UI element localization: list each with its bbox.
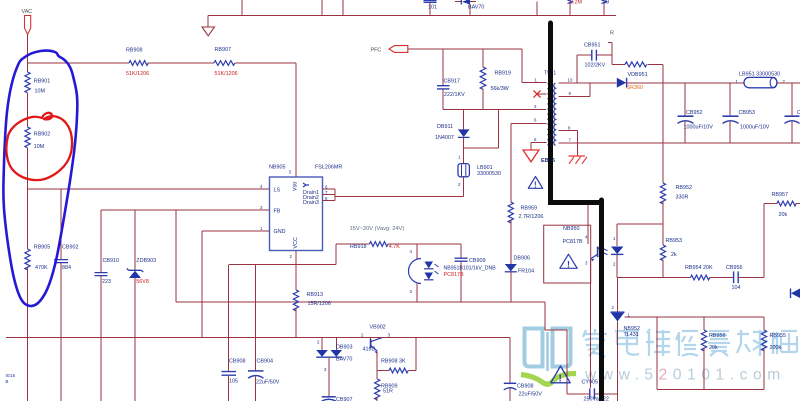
svg-text:105: 105 bbox=[229, 378, 238, 384]
svg-text:1000uF/10V: 1000uF/10V bbox=[740, 125, 770, 131]
optocoupler NB951 (LED side) bbox=[416, 244, 418, 259]
svg-text:VCC: VCC bbox=[293, 237, 299, 248]
wire bbox=[148, 62, 214, 64]
svg-text:CB909: CB909 bbox=[469, 258, 485, 264]
wire stub x343 bbox=[342, 0, 344, 16]
svg-text:250Vac 22: 250Vac 22 bbox=[584, 397, 609, 401]
svg-text:CB908: CB908 bbox=[229, 358, 245, 364]
svg-text:20k: 20k bbox=[779, 212, 788, 218]
wire pin3 line bbox=[443, 108, 546, 110]
svg-text:CB902: CB902 bbox=[62, 244, 78, 250]
capacitor CB910 223 bbox=[100, 210, 102, 272]
capacitor CB904 22uF/50V bbox=[255, 265, 257, 371]
svg-text:RB902: RB902 bbox=[34, 132, 50, 138]
black marker line bbox=[551, 23, 602, 401]
svg-text:39: 39 bbox=[603, 0, 609, 6]
wire bbox=[27, 93, 29, 127]
svg-text:VB902: VB902 bbox=[370, 325, 386, 331]
svg-text:CB910: CB910 bbox=[103, 258, 119, 264]
pin2 stub with X bbox=[536, 93, 547, 95]
svg-text:RB901: RB901 bbox=[34, 78, 50, 84]
wire RB908 line bbox=[28, 62, 130, 64]
ground (top left) bbox=[207, 16, 209, 28]
wire bottom main bus bbox=[6, 337, 510, 339]
svg-text:!: ! bbox=[534, 181, 537, 190]
svg-text:CB917: CB917 bbox=[444, 78, 460, 84]
wire FB line bbox=[101, 209, 270, 211]
wire FB branch down bbox=[175, 210, 177, 302]
svg-text:RB918: RB918 bbox=[350, 244, 366, 250]
svg-text:ZDB903: ZDB903 bbox=[136, 258, 156, 264]
resistor stub 2.2M (partial, top) bbox=[569, 3, 571, 16]
svg-text:20k: 20k bbox=[709, 345, 718, 351]
resistor RB951 bbox=[612, 63, 625, 65]
resistor RB907 51K/1206 bbox=[214, 61, 235, 66]
resistor RB959 2.7R/1206 bbox=[510, 124, 512, 203]
svg-text:RB908: RB908 bbox=[126, 47, 142, 53]
diode DB906 FR104 bbox=[505, 264, 517, 271]
svg-text:FSL206MR: FSL206MR bbox=[315, 164, 342, 170]
svg-text:!: ! bbox=[567, 259, 570, 269]
svg-text:BAV70: BAV70 bbox=[336, 356, 352, 362]
diode DB911 1N4007 bbox=[463, 109, 465, 129]
svg-text:NB952: NB952 bbox=[624, 326, 640, 332]
wire pin7 / ground bus bbox=[559, 142, 800, 144]
svg-text:104: 104 bbox=[732, 285, 741, 291]
svg-text:www.520101.com: www.520101.com bbox=[584, 367, 786, 384]
capacitor CB917 222/1KV bbox=[442, 49, 444, 85]
wire drain pins bbox=[323, 189, 336, 201]
svg-text:CB951: CB951 bbox=[584, 43, 600, 49]
svg-text:VAC: VAC bbox=[22, 9, 33, 15]
wire to IC Vstr bbox=[235, 63, 296, 177]
svg-text:223: 223 bbox=[102, 279, 111, 285]
wire PFC line bbox=[408, 49, 522, 83]
resistor stub 39x (partial, top) bbox=[603, 3, 605, 16]
top bus wire bbox=[208, 15, 616, 17]
svg-text:15R/1206: 15R/1206 bbox=[308, 301, 331, 307]
svg-text:CY905: CY905 bbox=[582, 380, 598, 386]
primary winding bbox=[548, 84, 550, 145]
capacitor (partial, right edge) bbox=[791, 83, 793, 116]
watermark chinese characters bbox=[583, 329, 797, 357]
wire LS line bbox=[28, 188, 270, 190]
svg-text:B: B bbox=[6, 379, 9, 384]
svg-text:RB952: RB952 bbox=[676, 185, 692, 191]
svg-text:NB905: NB905 bbox=[269, 164, 285, 170]
wire y302 bus bbox=[176, 301, 545, 303]
svg-text:2.2M: 2.2M bbox=[570, 0, 582, 5]
svg-text:1N4007: 1N4007 bbox=[435, 135, 454, 141]
phototransistor NB950 bbox=[587, 205, 589, 244]
svg-text:RB959: RB959 bbox=[521, 205, 537, 211]
wire y302 corner down bbox=[545, 302, 589, 394]
svg-text:222/1KV: 222/1KV bbox=[444, 92, 465, 98]
resistor RB955 200k bbox=[763, 317, 765, 330]
resistor RB957 20k bbox=[764, 203, 777, 205]
svg-text:LB951 33000530: LB951 33000530 bbox=[739, 71, 780, 77]
wire pin10 bbox=[559, 82, 617, 84]
wire pin9 riser bbox=[559, 83, 591, 97]
svg-text:15V~20V (Vavg: 24V): 15V~20V (Vavg: 24V) bbox=[350, 226, 405, 232]
svg-text:2k: 2k bbox=[671, 252, 677, 258]
wire RB918 line bbox=[336, 243, 370, 245]
wire stub x322 bbox=[321, 0, 323, 16]
wire left branch bbox=[657, 317, 764, 390]
capacitor CB951 102/2KV bbox=[577, 55, 591, 83]
wire y264 link bbox=[229, 244, 336, 265]
wire feedback rail bbox=[617, 277, 691, 279]
svg-text:102/2KV: 102/2KV bbox=[585, 62, 606, 68]
svg-text:!: ! bbox=[559, 374, 562, 385]
svg-text:NB951B101/1kV_DNB: NB951B101/1kV_DNB bbox=[444, 266, 497, 272]
svg-text:BAV70: BAV70 bbox=[468, 5, 484, 11]
svg-text:IG16: IG16 bbox=[6, 373, 16, 378]
svg-text:CB908: CB908 bbox=[517, 383, 533, 389]
capacitor CB907 (partial bottom) bbox=[322, 396, 336, 398]
capacitor CB908 22uF/50V bbox=[509, 338, 511, 383]
diode (partial, right edge) bbox=[791, 289, 800, 299]
svg-text:RB953: RB953 bbox=[666, 238, 682, 244]
wire pin5 bbox=[531, 143, 547, 151]
op-amp U1 : IC NB905 FSL206MR box bbox=[270, 177, 323, 251]
svg-text:FR104: FR104 bbox=[518, 268, 534, 274]
wire 12V rail bbox=[627, 82, 744, 84]
svg-text:PC817B: PC817B bbox=[444, 272, 464, 278]
svg-text:SR360: SR360 bbox=[627, 85, 643, 91]
shunt NB952 TL431 bbox=[616, 278, 618, 313]
svg-text:RB955: RB955 bbox=[770, 333, 786, 339]
capacitor CB902 884 bbox=[60, 189, 62, 259]
svg-text:51K/1206: 51K/1206 bbox=[215, 71, 238, 77]
wire VCC down bbox=[295, 251, 297, 291]
resistor RB918 4.7K bbox=[370, 242, 388, 247]
capacitor CY905 bbox=[590, 388, 595, 399]
watermark book icon bbox=[525, 329, 571, 372]
warning triangle (opto) bbox=[560, 254, 577, 268]
svg-text:PFC: PFC bbox=[371, 48, 382, 54]
svg-text:RB907: RB907 bbox=[215, 47, 231, 53]
svg-text:33000530: 33000530 bbox=[477, 171, 501, 177]
svg-text:RB956: RB956 bbox=[709, 333, 725, 339]
resistor RB952 330R bbox=[660, 183, 665, 204]
svg-text:CB953: CB953 bbox=[739, 110, 755, 116]
secondary winding bbox=[554, 83, 556, 145]
resistor RB953 2k bbox=[662, 224, 664, 245]
svg-text:56V8: 56V8 bbox=[136, 279, 149, 285]
resistor RB902 10M bbox=[25, 127, 30, 148]
svg-text:RB957: RB957 bbox=[772, 192, 788, 198]
freehand red circle bbox=[6, 113, 72, 180]
resistor RB901 10M bbox=[25, 72, 30, 93]
svg-text:TL431: TL431 bbox=[624, 332, 639, 338]
capacitor 101 (partial, top) bbox=[429, 3, 431, 16]
svg-text:884: 884 bbox=[62, 265, 71, 271]
svg-text:RB908 3K: RB908 3K bbox=[381, 359, 406, 365]
wire VAC down bbox=[27, 35, 29, 73]
wire to LED bbox=[617, 224, 663, 246]
svg-text:22uF/50V: 22uF/50V bbox=[256, 379, 280, 385]
svg-text:RB919: RB919 bbox=[495, 70, 511, 76]
wire stub x537 bbox=[536, 2, 538, 16]
svg-text:NB950: NB950 bbox=[563, 226, 579, 232]
svg-text:101: 101 bbox=[428, 5, 437, 11]
svg-text:2.7R/1206: 2.7R/1206 bbox=[519, 214, 544, 220]
resistor RB908 3K bbox=[377, 370, 389, 372]
resistor RB919 56k/3W bbox=[482, 49, 484, 67]
wire pin6 bbox=[511, 123, 547, 125]
capacitor CB953 1000uF/10V bbox=[729, 83, 731, 116]
wire pin8 bbox=[559, 131, 578, 157]
resistor RB908 51K/1206 bbox=[129, 61, 148, 66]
resistor RB954 20K bbox=[691, 275, 710, 280]
svg-text:GND: GND bbox=[274, 229, 286, 235]
capacitor CB908 (105) bbox=[228, 265, 230, 372]
svg-text:RB913: RB913 bbox=[307, 292, 323, 298]
svg-text:FB: FB bbox=[274, 208, 281, 214]
svg-text:PC817B: PC817B bbox=[563, 239, 583, 245]
resistor RB905 470K bbox=[27, 189, 29, 249]
svg-text:4.7K: 4.7K bbox=[389, 244, 400, 250]
svg-text:56k/3W: 56k/3W bbox=[491, 86, 510, 92]
capacitor CB909 bbox=[460, 244, 462, 258]
svg-text:R: R bbox=[610, 31, 614, 37]
capacitor CB952 1000uF/10V bbox=[684, 83, 686, 116]
svg-text:DB903: DB903 bbox=[336, 344, 352, 350]
optocoupler NB950 PC817B box bbox=[544, 225, 591, 283]
resistor RB956 20k bbox=[703, 317, 705, 330]
svg-text:LS: LS bbox=[274, 187, 281, 193]
svg-text:10M: 10M bbox=[35, 88, 46, 94]
svg-text:51K/1206: 51K/1206 bbox=[126, 71, 149, 77]
diode VDB951 SR360 bbox=[617, 78, 626, 88]
svg-text:CB956: CB956 bbox=[726, 265, 742, 271]
wire stub x242 bbox=[241, 0, 243, 16]
svg-text:CB907: CB907 bbox=[336, 397, 352, 401]
watermark green swoosh bbox=[521, 374, 576, 385]
svg-text:10M: 10M bbox=[34, 144, 45, 150]
zener ZDB903 bbox=[134, 210, 136, 270]
wire pin1 bbox=[522, 82, 547, 84]
wire drain line bbox=[335, 196, 464, 198]
capacitor CB956 104 bbox=[734, 271, 739, 283]
svg-text:DB906: DB906 bbox=[514, 256, 530, 262]
svg-text:51R: 51R bbox=[383, 389, 393, 395]
resistor RB913 15R/1206 bbox=[293, 290, 298, 311]
svg-text:CB904: CB904 bbox=[257, 358, 273, 364]
warning triangle (bottom) bbox=[551, 366, 570, 383]
svg-text:RB905: RB905 bbox=[34, 244, 50, 250]
wire TL431 ref line bbox=[625, 316, 765, 318]
svg-text:470K: 470K bbox=[35, 265, 48, 271]
wire bbox=[27, 148, 29, 189]
resistor RB909 51R bbox=[375, 379, 380, 400]
ground EB16 (triangle) bbox=[523, 150, 539, 162]
svg-text:1000uF/10V: 1000uF/10V bbox=[684, 125, 714, 131]
svg-text:DB911: DB911 bbox=[437, 124, 453, 130]
wire GND line bbox=[202, 230, 270, 232]
svg-text:10: 10 bbox=[568, 78, 573, 83]
diode DB903 BAV70 (dual) bbox=[322, 338, 336, 351]
warning triangle (transformer) bbox=[528, 177, 542, 189]
svg-text:VDB951: VDB951 bbox=[628, 72, 648, 78]
svg-text:200k: 200k bbox=[770, 345, 782, 351]
earth ground (hatched) bbox=[569, 155, 586, 157]
svg-text:Drain3: Drain3 bbox=[303, 200, 319, 206]
svg-text:Vstr: Vstr bbox=[293, 181, 299, 191]
svg-text:CB952: CB952 bbox=[686, 110, 702, 116]
svg-text:330R: 330R bbox=[676, 194, 689, 200]
svg-text:RB954 20K: RB954 20K bbox=[685, 265, 713, 271]
wire clamp loop bbox=[464, 109, 499, 148]
svg-text:22uF/50V: 22uF/50V bbox=[519, 391, 543, 397]
freehand blue circle bbox=[3, 51, 77, 306]
wire GND down bbox=[201, 231, 203, 338]
diode BAV70 (partial, top) bbox=[455, 2, 476, 16]
